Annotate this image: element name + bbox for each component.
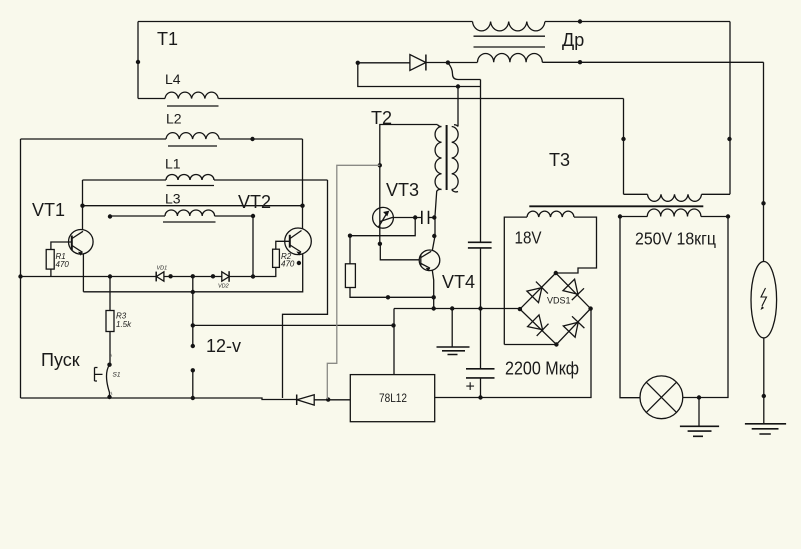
wire VT2 base lead [276, 241, 290, 249]
wire collector cross line [83, 205, 303, 207]
regulator U1 78L12 box [350, 375, 434, 422]
svg-text:VT1: VT1 [32, 200, 65, 220]
label VT4 [442, 272, 475, 292]
svg-text:250V 18кгц: 250V 18кгц [635, 229, 716, 249]
wire main vertical rail lower [480, 248, 482, 369]
label VD2 [218, 284, 229, 290]
wire bottom bus right of 78L12 [435, 309, 591, 398]
inductor L1 winding [166, 175, 214, 181]
wire 250V box right edge [683, 217, 728, 398]
label 18V [515, 228, 542, 248]
winding 250V secondary [620, 209, 728, 217]
diode VD3 top [410, 55, 426, 71]
capacitor C2 [468, 242, 492, 248]
inductor L1 core line [167, 185, 215, 187]
transformer T3 core line [529, 205, 703, 207]
label R2 470 [281, 252, 295, 269]
label VT2 [238, 192, 271, 212]
wire 12v vertical upper [192, 277, 194, 347]
wire T3 primary left riser [623, 99, 625, 195]
diode VD1 [156, 272, 164, 282]
junction dot lamp right [697, 395, 701, 399]
junction dot gray line bottom [326, 397, 330, 401]
wire VT3 base lead to cap [392, 217, 421, 219]
wire emitter bus [83, 254, 302, 292]
choke Др secondary winding [478, 53, 543, 62]
junction dot rect line left [356, 61, 360, 65]
wire cap right lead [429, 217, 436, 219]
wire T2 secondary top lead [457, 87, 459, 127]
label T2 [371, 108, 392, 128]
svg-text:1.5k: 1.5k [116, 320, 132, 329]
junction dot gnd bus 2 [450, 306, 454, 310]
label Пуск [41, 350, 80, 370]
junction dot on T1 left edge [136, 60, 140, 64]
wire bottom bus left [21, 398, 297, 400]
bridge diode D-a top-left [527, 282, 548, 303]
inductor L2 core line [168, 145, 217, 147]
junction dot gnd bus 3 [478, 306, 482, 310]
bridge VDS1 diamond [520, 273, 591, 345]
wire gray control line [327, 165, 380, 399]
wire feedback branch [350, 218, 415, 236]
wire L3 line [110, 215, 253, 217]
svg-text:470: 470 [56, 260, 70, 269]
label S1 [113, 372, 121, 379]
svg-text:L2: L2 [166, 111, 182, 127]
junction dot 250V right [726, 214, 730, 218]
wire 78L12 input drop [393, 309, 395, 375]
wire spark gap feed [763, 62, 765, 261]
junction dot left rail base bus [18, 274, 22, 278]
label R1 470 [56, 252, 70, 269]
svg-text:Др: Др [562, 30, 584, 50]
wire bridge bottom lead [504, 344, 556, 346]
label L4 [165, 71, 181, 87]
wire 250V box left edge [620, 217, 640, 398]
svg-text:S1: S1 [113, 372, 121, 379]
svg-text:L3: L3 [165, 191, 181, 207]
ground symbol G3 [745, 424, 786, 434]
choke Др primary winding [473, 22, 545, 31]
svg-text:12-v: 12-v [206, 336, 241, 356]
svg-text:VD2: VD2 [218, 284, 229, 290]
junction dot VT4 collector [432, 234, 436, 238]
wire T2 bottom-left drop [432, 216, 435, 251]
capacitor C3 electrolytic 2200 [466, 369, 495, 378]
resistor R4 [345, 264, 355, 288]
svg-text:L1: L1 [165, 156, 181, 172]
capacitor C1 coupling [422, 211, 429, 224]
wire ground bus [394, 308, 520, 310]
junction dot emitter-R4 [432, 295, 436, 299]
diode VD4 bottom [297, 395, 315, 406]
svg-text:18V: 18V [515, 228, 542, 248]
svg-text:Пуск: Пуск [41, 350, 80, 370]
junction dot VT1 collector [80, 204, 84, 208]
junction dot R3 top [108, 274, 112, 278]
label T1 [157, 29, 178, 49]
label 2200 Мкф [505, 358, 579, 379]
wire VT1 base lead [51, 242, 72, 250]
svg-text:+: + [466, 379, 475, 396]
junction dot VT2 collector [300, 204, 304, 208]
junction dot VT3 emitter [378, 242, 382, 246]
wire top right drop [729, 22, 731, 195]
junction dot bridge left [518, 307, 522, 311]
wire spark gap bottom lead [763, 338, 765, 424]
junction dot on L2 line [250, 137, 254, 141]
svg-text:T1: T1 [157, 29, 178, 49]
junction dot R4 bottom line [386, 295, 390, 299]
label 78L12 [379, 393, 407, 405]
label VD1 [157, 266, 168, 272]
wire L4 line [138, 98, 624, 100]
wire base bus (R1-R2 line) [21, 267, 276, 276]
wire VT1 collector drop [82, 180, 84, 230]
junction dot 12v feed left [191, 323, 195, 327]
svg-text:L4: L4 [165, 71, 181, 87]
junction dot gnd bus 1 [432, 306, 436, 310]
floating dot near VT2 emitter [297, 261, 301, 265]
wire L2 right drop to VT2 [302, 139, 304, 229]
wire curve to main vertical [448, 63, 481, 80]
svg-text:VT4: VT4 [442, 272, 475, 292]
T1 left edge wire [137, 22, 139, 99]
wire VT4 emitter drop [432, 270, 433, 308]
wire R4 leads [350, 236, 434, 298]
inductor L3 winding [165, 210, 215, 216]
svg-text:2200 Мкф: 2200 Мкф [505, 358, 579, 379]
junction dot L3 tap on base bus [251, 274, 255, 278]
wire left rail [20, 139, 22, 398]
label VDS1 [547, 296, 571, 306]
junction dot top right drop [727, 137, 731, 141]
junction dot L3 right end [251, 214, 255, 218]
wire 12v vertical lower [192, 370, 194, 398]
junction dot R4 top node [348, 234, 352, 238]
label R3 1.5k [116, 312, 132, 330]
wire VT3 collector riser [380, 125, 438, 209]
wire R3 leads [109, 277, 111, 365]
spark gap FV1 [751, 262, 777, 338]
label L2 [166, 111, 182, 127]
ground symbol G2 [680, 398, 719, 437]
wire drop from rect line [358, 63, 481, 87]
winding 18V [527, 211, 574, 217]
svg-text:VD1: VD1 [157, 266, 168, 272]
bridge diode D-c bottom-left [528, 315, 549, 336]
wire VT1 emitter drop [82, 254, 84, 292]
junction dot 12v node bottom [191, 368, 195, 372]
label VT3 [386, 180, 419, 200]
wire L2 line [21, 138, 303, 140]
transistor VT2 [285, 228, 312, 256]
svg-text:VT2: VT2 [238, 192, 271, 212]
transistor VT1 [69, 230, 94, 256]
transformer T2 [435, 125, 458, 216]
transistor VT4 [419, 250, 440, 271]
inductor L3 core line [163, 221, 216, 223]
junction dot C3 on bottom bus [478, 395, 482, 399]
ground symbol G1 [437, 309, 470, 355]
junction dot cap left node [413, 215, 417, 219]
wire 18V box outline [504, 217, 596, 344]
junction dot after VD1 [168, 274, 172, 278]
junction dot 12v feed right [391, 323, 395, 327]
junction dot 12v emitter tap [191, 290, 195, 294]
lamp HL1 [640, 376, 683, 419]
choke Др core lines [474, 36, 546, 47]
wire C3 bottom lead [480, 378, 482, 398]
label L1 [165, 156, 181, 172]
inductor L4 core line [167, 105, 219, 107]
junction dot 12v tap [191, 274, 195, 278]
junction dot bridge top [554, 271, 558, 275]
junction dot 12v on bottom bus [191, 396, 195, 400]
transformer T3 primary [624, 194, 731, 201]
junction dot 250V left [618, 214, 622, 218]
junction dot rect line mid [446, 60, 450, 64]
wire top bus left (T1 top) [138, 21, 473, 23]
label VT1 [32, 200, 65, 220]
inductor L2 winding [166, 133, 219, 139]
junction dot bridge bottom [554, 342, 558, 346]
wire rectified top line [358, 61, 764, 64]
label 12-v [206, 336, 241, 356]
junction dot spark feed [761, 201, 765, 205]
wire VT3 emitter drop [380, 228, 420, 260]
junction dot cap right node [432, 215, 436, 219]
junction dot 12v node top [191, 344, 195, 348]
junction dot gray tap [378, 163, 382, 167]
label L3 [165, 191, 181, 207]
svg-text:T3: T3 [549, 150, 570, 170]
label plus C3 [466, 379, 475, 396]
tick marks S1 [111, 354, 112, 395]
svg-text:VDS1: VDS1 [547, 296, 571, 306]
label 250V 18кгц [635, 229, 716, 249]
svg-text:VT3: VT3 [386, 180, 419, 200]
resistor R3 [106, 311, 114, 332]
wire L3 right drop [252, 216, 254, 277]
junction dot L3 left corner [108, 214, 112, 218]
junction dot spark bottom [762, 394, 766, 398]
svg-text:78L12: 78L12 [379, 393, 407, 405]
wire diode to 78L12 [314, 399, 350, 401]
junction dot T2 top lead [456, 84, 460, 88]
switch S1 [95, 363, 112, 400]
junction dot bridge right [588, 306, 592, 310]
bridge diode D-b top-right [563, 279, 584, 300]
wire R1 bottom lead [50, 269, 52, 276]
junction dot top bus [578, 19, 582, 23]
junction dot rect line right [578, 60, 582, 64]
diode VD2 [222, 271, 230, 282]
label T3 [549, 150, 570, 170]
transistor VT3 [373, 207, 394, 228]
resistor R1 [46, 250, 54, 270]
svg-text:470: 470 [281, 260, 295, 269]
wire L1 right drop [283, 180, 328, 398]
label Др [562, 30, 584, 50]
wire 12v feed line [193, 324, 394, 326]
wire top bus right [545, 21, 730, 23]
wire main vertical rail [480, 80, 482, 243]
junction dot T3 left riser [621, 137, 625, 141]
junction dot before VD2 [211, 274, 215, 278]
inductor L4 winding [165, 92, 218, 98]
wire L1 line [83, 179, 328, 181]
resistor R2 [273, 249, 280, 267]
bridge diode D-d bottom-right [563, 316, 584, 337]
